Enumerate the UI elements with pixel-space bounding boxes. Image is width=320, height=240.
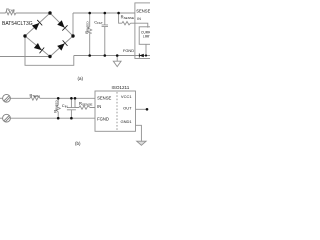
wire source1 to RTHR1 [10, 97, 30, 99]
svg-text:SENSE: SENSE [97, 96, 111, 101]
current limit to FGND riser [145, 44, 147, 55]
svg-text:IN: IN [137, 17, 141, 21]
wire bottom rail to IC FGND [74, 55, 150, 57]
OUT endpoint dot [146, 108, 149, 111]
svg-text:RSENSE: RSENSE [121, 14, 134, 20]
svg-text:RBLEED: RBLEED [84, 21, 90, 33]
svg-text:RBLEED: RBLEED [53, 100, 59, 112]
AC source 1 [0, 97, 3, 99]
wire bridge right node riser [72, 13, 74, 36]
bridge diode D2 (left-bottom) [34, 43, 45, 54]
svg-text:LIMIT: LIMIT [143, 35, 150, 39]
IN wire internal (a) [135, 23, 148, 27]
svg-text:(b): (b) [75, 141, 81, 146]
bridge diode edges [25, 13, 73, 57]
internal FGND junction dot (a) [145, 54, 147, 56]
IC box (a) [135, 3, 157, 59]
resistor RSENSE (b) [75, 98, 95, 109]
resistor RBLEED vertical (a) [88, 13, 92, 56]
svg-text:GND1: GND1 [120, 119, 132, 124]
junction dots top rail (a) [88, 12, 91, 15]
svg-text:OUT: OUT [123, 106, 132, 111]
svg-text:CIN: CIN [62, 103, 68, 109]
ground (a) stub [116, 56, 118, 62]
svg-text:SENSE: SENSE [136, 8, 150, 13]
svg-text:ISO1211: ISO1211 [112, 85, 130, 90]
svg-text:(a): (a) [78, 76, 84, 81]
OUT wire [136, 108, 148, 110]
wire AC input 1 (top left) [0, 12, 50, 14]
capacitor CIN (b) [67, 98, 76, 118]
GND1 wire [136, 125, 142, 141]
AC source 2 [0, 117, 3, 119]
capacitor CIN (a) [102, 13, 108, 56]
internal diode at FGND (a) [139, 54, 144, 58]
junction dots (b) [57, 97, 148, 119]
svg-text:VCC1: VCC1 [121, 94, 132, 99]
svg-text:FGND: FGND [97, 116, 109, 121]
wire top rail [73, 12, 135, 14]
svg-text:CFILT: CFILT [94, 19, 103, 25]
svg-text:FGND: FGND [123, 48, 134, 53]
ground (a) symbol [113, 61, 121, 66]
isolation barrier dashed [116, 92, 118, 131]
IC box (b) ISO1211 [95, 91, 136, 131]
wire AC input 2 (bottom left) [0, 56, 50, 58]
current limit box [139, 27, 157, 45]
resistor RSENSE (a) [119, 13, 135, 25]
bridge node dots [23, 11, 147, 58]
junction dots bottom rail (a) [88, 54, 91, 57]
ground (b) symbol [137, 141, 146, 145]
wire RTHR1 to IC [40, 97, 95, 99]
wire source2 to IC FGND [10, 117, 95, 119]
bridge diode D1 (left-top) [32, 20, 144, 58]
resistor RTHR [6, 11, 16, 15]
wire bridge left node to bottom rail [25, 36, 74, 65]
bridge diode D4 (bottom-right) [57, 40, 68, 51]
resistor RTHR1 [30, 97, 40, 101]
svg-text:IN: IN [97, 104, 101, 109]
bridge diode D3 (top-right) [57, 20, 68, 31]
svg-text:RTHR: RTHR [6, 8, 15, 13]
resistor RBLEED1 vertical (b) [56, 98, 60, 118]
svg-text:BAT54CLT3G: BAT54CLT3G [2, 21, 33, 27]
svg-text:RSENSE: RSENSE [79, 101, 92, 107]
